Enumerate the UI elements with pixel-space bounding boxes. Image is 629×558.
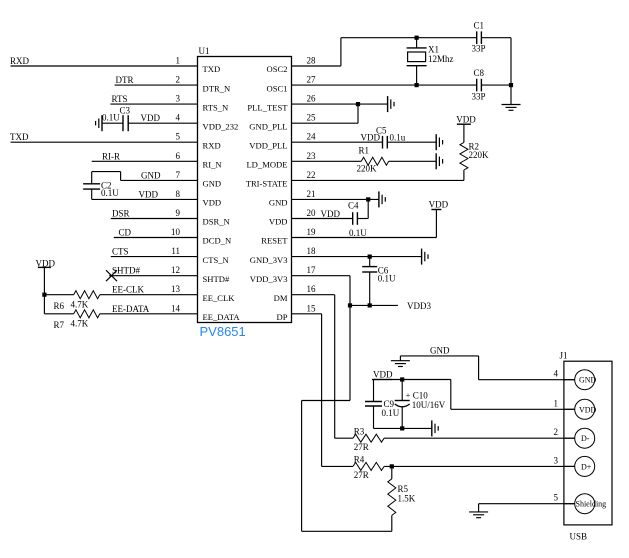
- net label DSR: [112, 209, 130, 219]
- svg-text:4: 4: [554, 369, 559, 379]
- svg-text:VDD: VDD: [456, 114, 476, 124]
- net label VDD (pin24): [361, 133, 381, 143]
- svg-text:GND: GND: [269, 198, 288, 208]
- wire pin1 net RXD: [11, 65, 198, 67]
- svg-text:6: 6: [176, 151, 181, 161]
- power symbol VDD (USB): [372, 370, 393, 380]
- svg-text:26: 26: [307, 94, 317, 104]
- junction dot pin21/C4: [366, 197, 370, 201]
- wire pin11 net CTS: [111, 256, 198, 258]
- wire pin6 net RI-R: [92, 160, 198, 162]
- net label TXD: [10, 132, 29, 142]
- svg-text:22: 22: [307, 170, 316, 180]
- wire R4 to J1 pin3 D+: [384, 465, 575, 467]
- wire pin2 net DTR: [115, 84, 198, 86]
- net label RXD: [10, 56, 30, 66]
- svg-text:GND: GND: [430, 346, 450, 356]
- svg-text:13: 13: [171, 284, 181, 294]
- ground (pin21, rotated): [379, 191, 385, 207]
- svg-text:EE-DATA: EE-DATA: [112, 304, 150, 314]
- U1 pin 26 PLL_TEST name and number: [247, 94, 316, 113]
- capacitor C4 0.1U: [348, 201, 367, 239]
- wire C3 to pin4 (net VDD): [128, 122, 197, 124]
- svg-text:CTS_N: CTS_N: [203, 255, 230, 265]
- svg-text:C3: C3: [120, 106, 131, 116]
- svg-text:0.1U: 0.1U: [378, 274, 396, 284]
- power symbol VDD (above R2): [456, 114, 476, 142]
- U1 part number PV8651: [200, 324, 246, 339]
- net label DTR: [116, 75, 134, 85]
- resistor R3 27R: [353, 427, 384, 452]
- svg-text:DCD_N: DCD_N: [203, 236, 232, 246]
- svg-text:14: 14: [171, 303, 181, 313]
- wire R6 to pin13 EE_CLK: [100, 294, 198, 296]
- net label CD: [119, 228, 132, 238]
- svg-text:LD_MODE: LD_MODE: [246, 160, 287, 170]
- U1 pin 4 VDD_232 name and number: [176, 113, 239, 132]
- svg-text:C8: C8: [474, 68, 485, 78]
- wire pin7 GND to C2 top: [92, 172, 198, 184]
- svg-text:RTS_N: RTS_N: [203, 102, 230, 112]
- junction dot VDD/R6: [42, 293, 46, 297]
- svg-text:5: 5: [176, 132, 181, 142]
- svg-text:21: 21: [307, 189, 316, 199]
- ground (PLL, rotated): [388, 96, 394, 112]
- wire pin17 VDD_3V3 down (net VDD3): [292, 276, 351, 401]
- wire C4 up to pin21: [357, 199, 368, 218]
- wire ground to C3: [102, 122, 123, 124]
- svg-text:DSR_N: DSR_N: [203, 217, 231, 227]
- net label EE-DATA: [112, 304, 150, 314]
- net label SHTD#: [112, 266, 141, 276]
- wire pin26 PLL_TEST: [292, 103, 388, 105]
- svg-text:TRI-STATE: TRI-STATE: [246, 179, 288, 189]
- svg-text:C4: C4: [348, 201, 359, 211]
- svg-text:PLL_TEST: PLL_TEST: [247, 102, 288, 112]
- capacitor C1 33P: [472, 21, 486, 54]
- svg-text:2: 2: [176, 75, 181, 85]
- U1 pin 23 LD_MODE name and number: [246, 151, 316, 170]
- svg-text:0.1u: 0.1u: [390, 133, 406, 143]
- wire C8 to right rail: [481, 84, 511, 86]
- svg-text:GND_3V3: GND_3V3: [250, 255, 288, 265]
- svg-text:GND_PLL: GND_PLL: [249, 121, 287, 131]
- svg-text:VDD: VDD: [579, 405, 597, 414]
- resistor R1 220K: [357, 145, 389, 173]
- U1 pin 18 GND_3V3 name and number: [250, 246, 316, 265]
- svg-text:RTS: RTS: [112, 94, 128, 104]
- svg-text:RXD: RXD: [203, 140, 221, 150]
- IC U1 body: [198, 57, 292, 323]
- svg-text:0.1U: 0.1U: [349, 228, 367, 238]
- svg-text:16: 16: [307, 284, 317, 294]
- resistor R2 220K: [460, 142, 489, 170]
- svg-text:USB: USB: [570, 531, 588, 541]
- svg-text:OSC2: OSC2: [266, 64, 287, 74]
- junction node crystal bottom: [415, 83, 419, 87]
- svg-text:20: 20: [307, 208, 317, 218]
- svg-text:EE-CLK: EE-CLK: [112, 285, 144, 295]
- crystal X1 12Mhz: [407, 38, 454, 85]
- wire VDD3 label line: [350, 304, 398, 306]
- svg-text:R7: R7: [54, 320, 65, 330]
- U1 pin 5 RXD name and number: [176, 132, 221, 151]
- svg-text:GND: GND: [579, 376, 597, 385]
- svg-text:0.1U: 0.1U: [382, 408, 400, 418]
- svg-text:27R: 27R: [354, 442, 369, 452]
- svg-text:12Mhz: 12Mhz: [428, 54, 454, 64]
- wire pin24 VDD_PLL to C5: [292, 141, 383, 143]
- svg-text:R5: R5: [398, 484, 409, 494]
- svg-text:25: 25: [307, 113, 317, 123]
- wire R3 to J1 pin2 D-: [384, 437, 575, 439]
- svg-text:4.7K: 4.7K: [71, 300, 89, 310]
- resistor R4 27R: [353, 455, 384, 480]
- svg-text:R4: R4: [354, 455, 365, 465]
- svg-text:RESET: RESET: [261, 236, 288, 246]
- svg-text:33P: 33P: [472, 44, 486, 54]
- svg-text:C10: C10: [413, 390, 429, 400]
- svg-text:OSC1: OSC1: [266, 83, 287, 93]
- svg-text:28: 28: [307, 56, 317, 66]
- svg-text:DTR: DTR: [116, 75, 134, 85]
- svg-text:DSR: DSR: [112, 209, 130, 219]
- svg-text:27: 27: [307, 75, 317, 85]
- wire pin22 TRI-STATE to R2: [292, 170, 464, 180]
- svg-text:VDD: VDD: [269, 217, 288, 227]
- wire pin5 net TXD: [11, 141, 198, 143]
- capacitor C9 0.1U: [365, 380, 400, 429]
- junction dot C10 bottom: [400, 426, 404, 430]
- U1 pin 24 VDD_PLL name and number: [249, 132, 316, 151]
- wire pin18 GND_3V3: [292, 256, 422, 258]
- svg-text:VDD: VDD: [429, 200, 449, 210]
- ground (C5, rotated): [436, 134, 442, 150]
- ground (C9/C10, rotated): [432, 420, 438, 436]
- svg-text:0.1U: 0.1U: [102, 112, 120, 122]
- junction dot R4/R5: [390, 464, 394, 468]
- wire VDD to R7: [44, 313, 73, 315]
- wire R5 bottom to VDD3 riser: [302, 401, 392, 532]
- net label GND (USB): [430, 346, 450, 356]
- svg-text:TXD: TXD: [203, 64, 221, 74]
- svg-text:33P: 33P: [472, 92, 486, 102]
- wire pin20 VDD to C4: [292, 218, 353, 220]
- U1 pin 27 OSC1 name and number: [266, 75, 316, 94]
- connector J1 USB body: [560, 351, 613, 542]
- power symbol VDD (left, feeding R6/R7): [36, 258, 56, 314]
- net label VDD (pin8): [139, 189, 159, 199]
- wire pin19 RESET to VDD: [292, 210, 437, 238]
- U1 pin 20 VDD name and number: [269, 208, 316, 227]
- U1 pin 11 CTS_N name and number: [171, 246, 229, 265]
- junction dot VDD/C10: [400, 377, 404, 381]
- wire R1 to ground: [389, 160, 437, 162]
- resistor R7 4.7K: [54, 310, 100, 330]
- svg-text:11: 11: [171, 246, 180, 256]
- U1 pin 7 GND name and number: [176, 170, 222, 189]
- svg-text:PV8651: PV8651: [200, 324, 246, 339]
- svg-text:3: 3: [554, 455, 559, 465]
- U1 pin 16 DM name and number: [274, 284, 316, 303]
- svg-text:1.5K: 1.5K: [398, 493, 416, 503]
- ground (shielding): [469, 512, 488, 518]
- wire R7 to pin14 EE_DATA: [100, 313, 198, 315]
- wire C1 to right rail: [481, 37, 511, 39]
- capacitor C5 0.1u: [376, 126, 406, 149]
- net label EE-CLK: [112, 285, 144, 295]
- wire VDD to R6: [44, 294, 73, 296]
- svg-text:EE_CLK: EE_CLK: [203, 293, 236, 303]
- wire C5 to ground: [387, 141, 436, 143]
- svg-text:1: 1: [554, 398, 559, 408]
- wire C2 bottom to pin8 VDD: [92, 189, 198, 199]
- svg-text:5: 5: [554, 493, 559, 503]
- U1 reference designator: [199, 46, 210, 56]
- svg-text:2: 2: [554, 427, 559, 437]
- net label GND (pin7): [141, 170, 161, 180]
- J1 pin 5 Shielding: [554, 493, 607, 514]
- svg-text:VDD: VDD: [203, 198, 222, 208]
- svg-text:10: 10: [171, 227, 181, 237]
- resistor R5 1.5K: [388, 466, 416, 531]
- svg-text:D-: D-: [581, 434, 590, 443]
- svg-text:VDD: VDD: [321, 209, 341, 219]
- wire pin15 DP down to R4: [292, 314, 322, 467]
- svg-text:23: 23: [307, 151, 317, 161]
- ground (crystal): [502, 105, 521, 111]
- svg-text:RI_N: RI_N: [203, 160, 223, 170]
- svg-text:27R: 27R: [354, 470, 369, 480]
- U1 pin 3 RTS_N name and number: [176, 94, 230, 113]
- capacitor C6 0.1U: [362, 257, 396, 306]
- J1 pin 1 VDD: [554, 398, 597, 419]
- svg-text:19: 19: [307, 227, 317, 237]
- svg-text:8: 8: [176, 189, 181, 199]
- svg-text:7: 7: [176, 170, 181, 180]
- net label CTS: [112, 247, 129, 257]
- capacitor C3 0.1U: [102, 106, 131, 132]
- U1 pin 28 OSC2 name and number: [266, 56, 316, 75]
- U1 pin 14 EE_DATA name and number: [171, 303, 240, 322]
- svg-text:18: 18: [307, 246, 317, 256]
- wire pin12 net SHTD#: [109, 275, 197, 277]
- wire DM to R3: [335, 437, 353, 439]
- capacitor C10 10U/16V electrolytic: [395, 380, 446, 429]
- wire pin16 DM down to R3: [292, 295, 335, 439]
- ground (GND net): [391, 361, 410, 367]
- wire J1 pin5 Shielding to ground: [479, 504, 575, 512]
- svg-text:17: 17: [307, 265, 317, 275]
- U1 pin 21 GND name and number: [269, 189, 316, 208]
- svg-text:CTS: CTS: [112, 247, 129, 257]
- svg-text:TXD: TXD: [10, 132, 29, 142]
- U1 pin 15 DP name and number: [277, 303, 317, 322]
- svg-text:+: +: [406, 391, 411, 400]
- wire pin27 OSC1: [292, 84, 477, 86]
- wire pin23 LD_MODE to R1: [292, 160, 362, 162]
- U1 pin 10 DCD_N name and number: [171, 227, 232, 246]
- svg-text:R6: R6: [54, 301, 65, 311]
- net label RTS: [112, 94, 128, 104]
- svg-text:4: 4: [176, 113, 181, 123]
- svg-text:Shielding: Shielding: [576, 500, 607, 509]
- wire pin9 net DSR: [111, 218, 198, 220]
- svg-text:1: 1: [176, 56, 181, 66]
- svg-text:RXD: RXD: [10, 56, 30, 66]
- ground (pin18, rotated): [422, 249, 428, 265]
- svg-text:VDD3: VDD3: [407, 301, 431, 311]
- junction dot pin18/C6: [368, 255, 372, 259]
- svg-text:CD: CD: [119, 228, 132, 238]
- junction dot pin26/pin25: [356, 102, 360, 106]
- wire VDD rail to J1 pin1: [374, 380, 575, 410]
- net label RI-R: [102, 151, 120, 161]
- svg-text:24: 24: [307, 132, 317, 142]
- U1 pin 25 GND_PLL name and number: [249, 113, 316, 132]
- wire pin10 net CD: [114, 237, 198, 239]
- capacitor C8 33P: [472, 68, 486, 101]
- J1 pin 4 GND: [554, 369, 597, 390]
- svg-text:DM: DM: [274, 293, 288, 303]
- svg-text:SHTD#: SHTD#: [112, 266, 141, 276]
- svg-text:VDD: VDD: [373, 370, 393, 380]
- svg-text:C1: C1: [474, 21, 485, 31]
- svg-text:EE_DATA: EE_DATA: [203, 312, 241, 322]
- svg-text:VDD: VDD: [139, 189, 159, 199]
- junction node crystal top: [415, 36, 419, 40]
- svg-text:VDD: VDD: [141, 113, 161, 123]
- wire pin28 OSC2 up and over: [292, 38, 477, 66]
- svg-text:GND: GND: [203, 179, 222, 189]
- junction dot right rail / OSC1: [509, 83, 513, 87]
- svg-text:SHTD#: SHTD#: [203, 274, 230, 284]
- wire pin21 GND: [292, 198, 379, 200]
- U1 pin 22 TRI-STATE name and number: [246, 170, 316, 189]
- wire right rail down: [510, 38, 512, 105]
- svg-text:220K: 220K: [469, 150, 490, 160]
- svg-text:3: 3: [176, 94, 181, 104]
- svg-text:220K: 220K: [357, 163, 378, 173]
- svg-text:VDD_3V3: VDD_3V3: [250, 274, 288, 284]
- net label VDD3: [407, 301, 431, 311]
- svg-text:D+: D+: [581, 462, 592, 471]
- svg-text:GND: GND: [141, 170, 161, 180]
- junction dot pin17/VDD3: [348, 303, 352, 307]
- no-connect X on pin12: [106, 270, 117, 281]
- svg-text:J1: J1: [560, 351, 568, 361]
- svg-text:9: 9: [176, 208, 181, 218]
- svg-text:12: 12: [171, 265, 180, 275]
- svg-text:X1: X1: [428, 44, 439, 54]
- svg-text:RI-R: RI-R: [102, 151, 120, 161]
- svg-text:VDD_PLL: VDD_PLL: [249, 140, 287, 150]
- ground (left of C3): [96, 115, 102, 131]
- U1 pin 1 TXD name and number: [176, 56, 221, 75]
- ground (R1, rotated): [436, 153, 442, 169]
- svg-text:10U/16V: 10U/16V: [412, 400, 446, 410]
- J1 pin 2 D-: [554, 427, 595, 448]
- junction dot C6/VDD3: [368, 303, 372, 307]
- U1 pin 17 VDD_3V3 name and number: [250, 265, 316, 284]
- svg-text:VDD_232: VDD_232: [203, 121, 239, 131]
- wire C9/C10 bottom node to ground: [374, 427, 432, 429]
- svg-text:DTR_N: DTR_N: [203, 83, 231, 93]
- net label VDD (pin20): [321, 209, 341, 219]
- U1 pin 19 RESET name and number: [261, 227, 316, 246]
- wire pin3 net RTS: [110, 103, 197, 105]
- net label VDD (pin4): [141, 113, 161, 123]
- svg-text:15: 15: [307, 303, 317, 313]
- svg-text:DP: DP: [277, 312, 288, 322]
- svg-text:U1: U1: [199, 46, 210, 56]
- wire DP to R4: [322, 465, 353, 467]
- svg-text:R3: R3: [354, 427, 365, 437]
- svg-text:0.1U: 0.1U: [101, 188, 119, 198]
- U1 pin 8 VDD name and number: [176, 189, 222, 208]
- U1 pin 2 DTR_N name and number: [176, 75, 231, 94]
- wire pin25 GND_PLL up to pin26: [292, 104, 359, 123]
- wire GND net to J1 pin4: [400, 356, 574, 380]
- U1 pin 12 SHTD# name and number: [171, 265, 230, 284]
- U1 pin 13 EE_CLK name and number: [171, 284, 235, 303]
- power symbol VDD (pin19): [429, 200, 449, 210]
- capacitor C2 0.1U: [83, 181, 119, 199]
- svg-text:R1: R1: [359, 145, 370, 155]
- J1 pin 3 D+: [554, 455, 595, 476]
- U1 pin 6 RI_N name and number: [176, 151, 223, 170]
- resistor R6 4.7K: [54, 291, 100, 312]
- svg-text:C5: C5: [376, 126, 387, 136]
- svg-text:4.7K: 4.7K: [71, 318, 89, 328]
- U1 pin 9 DSR_N name and number: [176, 208, 231, 227]
